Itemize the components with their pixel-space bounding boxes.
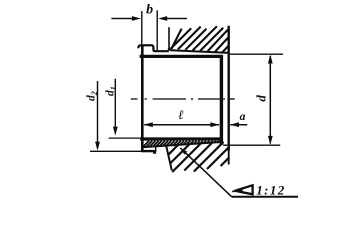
hub upper section hatching xyxy=(171,26,229,52)
sleeve bore bottom edge xyxy=(140,137,223,140)
hub upper section left edge xyxy=(168,27,170,49)
dimension b extension line right xyxy=(156,10,158,51)
dimension d extension line bottom xyxy=(223,144,280,146)
dimension d1 line with arrow xyxy=(114,79,116,133)
sleeve outer right face xyxy=(227,26,229,151)
svg-text:d: d xyxy=(254,95,269,102)
taper symbol triangle xyxy=(235,185,253,194)
sleeve thread lip and groove outline xyxy=(138,45,169,51)
sleeve bore right edge xyxy=(220,55,223,145)
dimension b line left with arrow xyxy=(111,18,133,20)
dimension d extension line top xyxy=(229,53,283,55)
sleeve left face xyxy=(141,45,144,152)
hub lower section left edge xyxy=(166,146,172,170)
sleeve lower step at thread groove xyxy=(155,147,157,152)
dimension b line right with arrow xyxy=(166,18,187,20)
hub lower section hatching xyxy=(168,142,229,172)
sleeve flange bottom edge (left end, lower half) xyxy=(141,150,156,152)
taper leader line with arrow xyxy=(180,148,231,197)
dimension d2 extension line xyxy=(90,150,142,152)
sleeve tapered outer surface (top, contact line 1:12) xyxy=(168,49,229,53)
taper callout underline xyxy=(232,196,298,198)
svg-text:b: b xyxy=(146,3,153,18)
dimension l line with arrows xyxy=(144,124,219,126)
svg-text:a: a xyxy=(240,111,246,123)
sleeve bore top edge xyxy=(140,55,223,58)
dimension b extension line left xyxy=(141,11,143,44)
hub lower section right edge xyxy=(228,145,230,164)
sleeve lower wall section hatching xyxy=(143,141,219,147)
svg-text:ℓ: ℓ xyxy=(178,107,184,122)
dimension d line with arrows xyxy=(269,56,271,144)
svg-text:1:12: 1:12 xyxy=(256,183,285,198)
dimension a line with arrow xyxy=(230,124,247,126)
sleeve tapered outer surface (bottom, contact line) xyxy=(142,142,221,147)
dimension d1 extension line xyxy=(109,137,142,139)
dimension d2 line with arrow xyxy=(97,81,99,148)
centerline (axis) xyxy=(131,98,235,100)
